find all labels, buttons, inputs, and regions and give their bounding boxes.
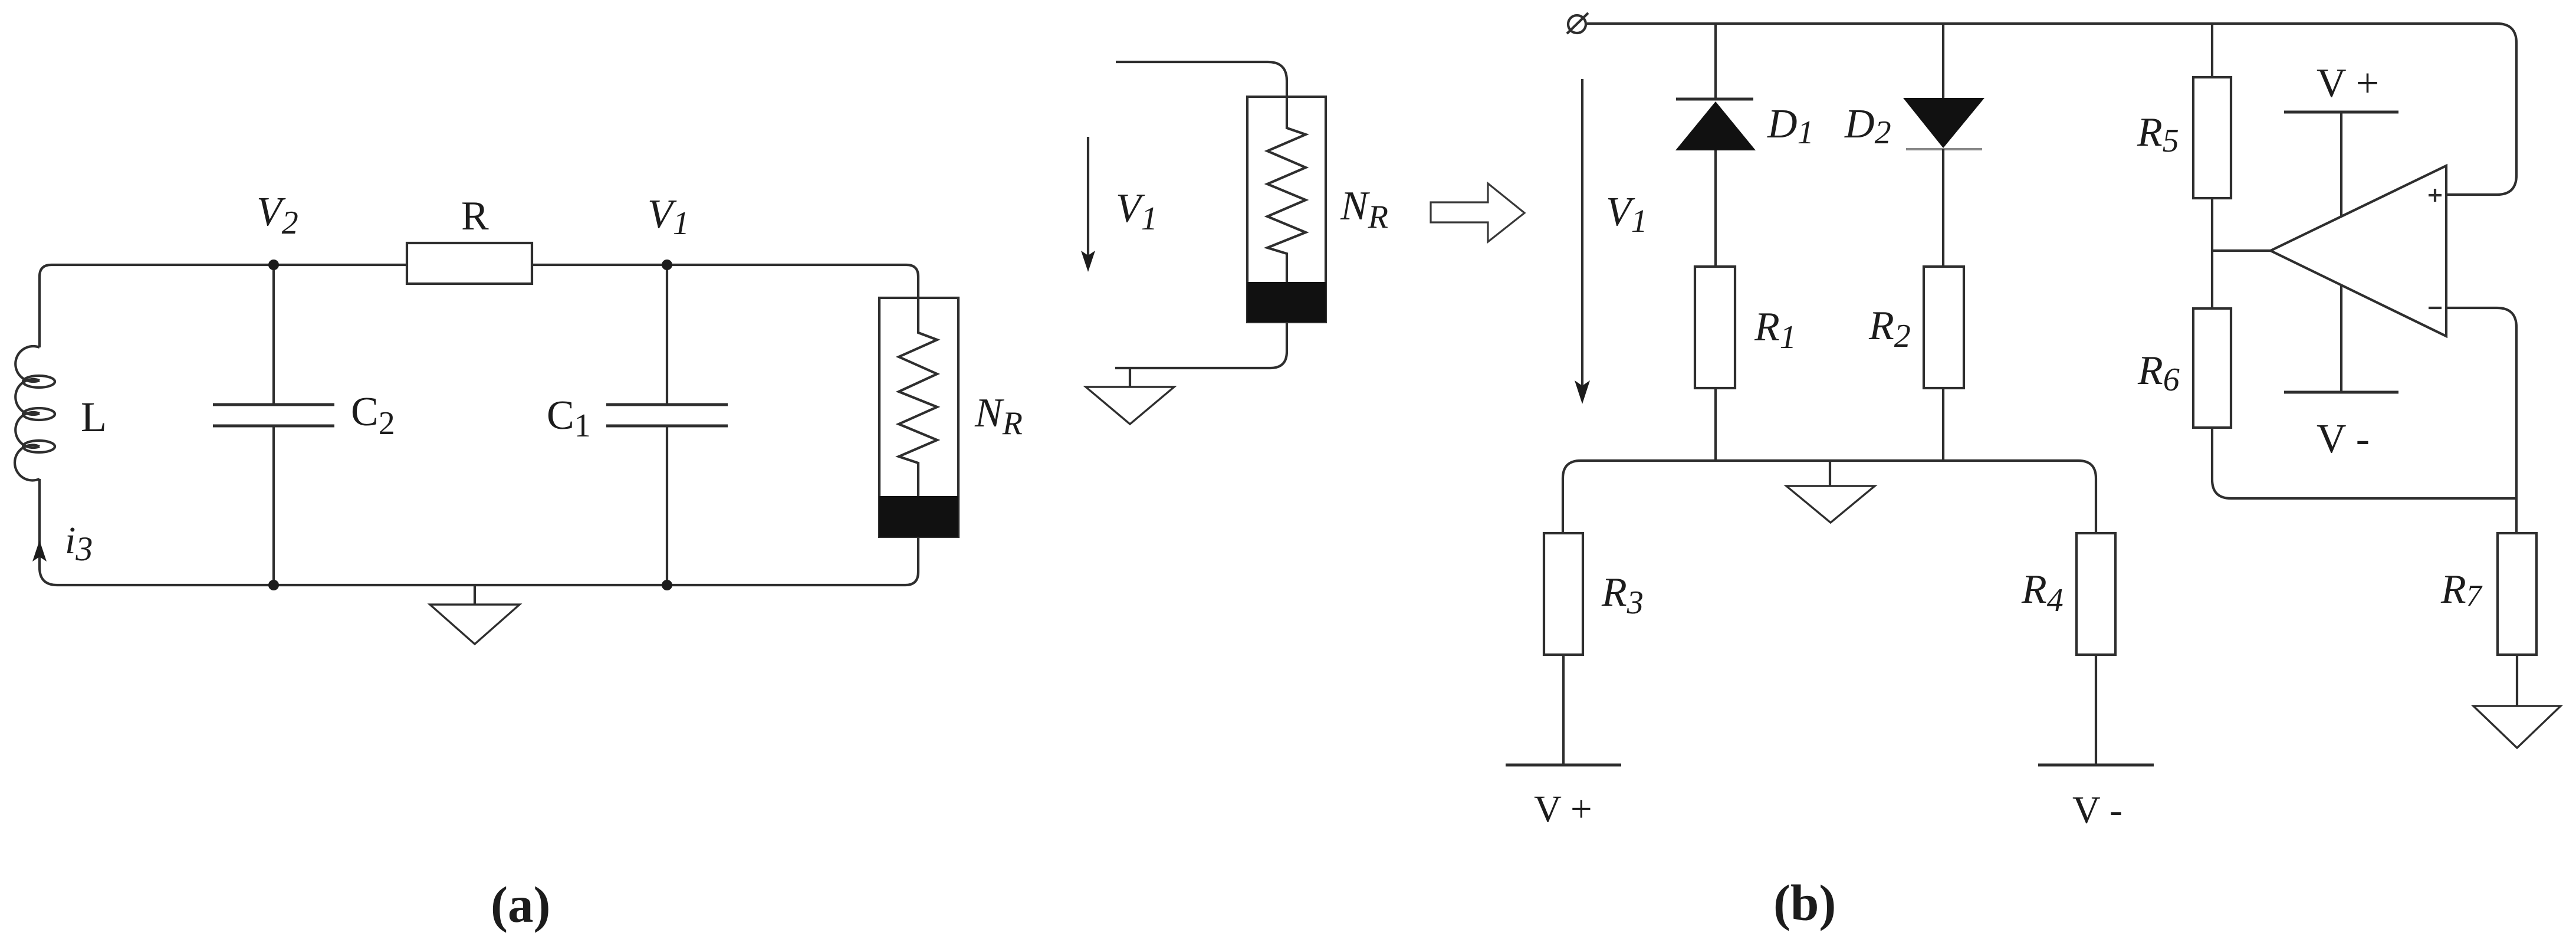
svg-text:(a): (a) (491, 876, 550, 933)
svg-text:V -: V - (2072, 789, 2122, 832)
svg-text:(b): (b) (1773, 874, 1836, 931)
svg-text:V +: V + (1534, 788, 1592, 830)
svg-text:V +: V + (2317, 61, 2379, 106)
svg-text:R: R (461, 193, 489, 239)
svg-text:V -: V - (2317, 416, 2370, 462)
svg-text:L: L (81, 393, 107, 441)
